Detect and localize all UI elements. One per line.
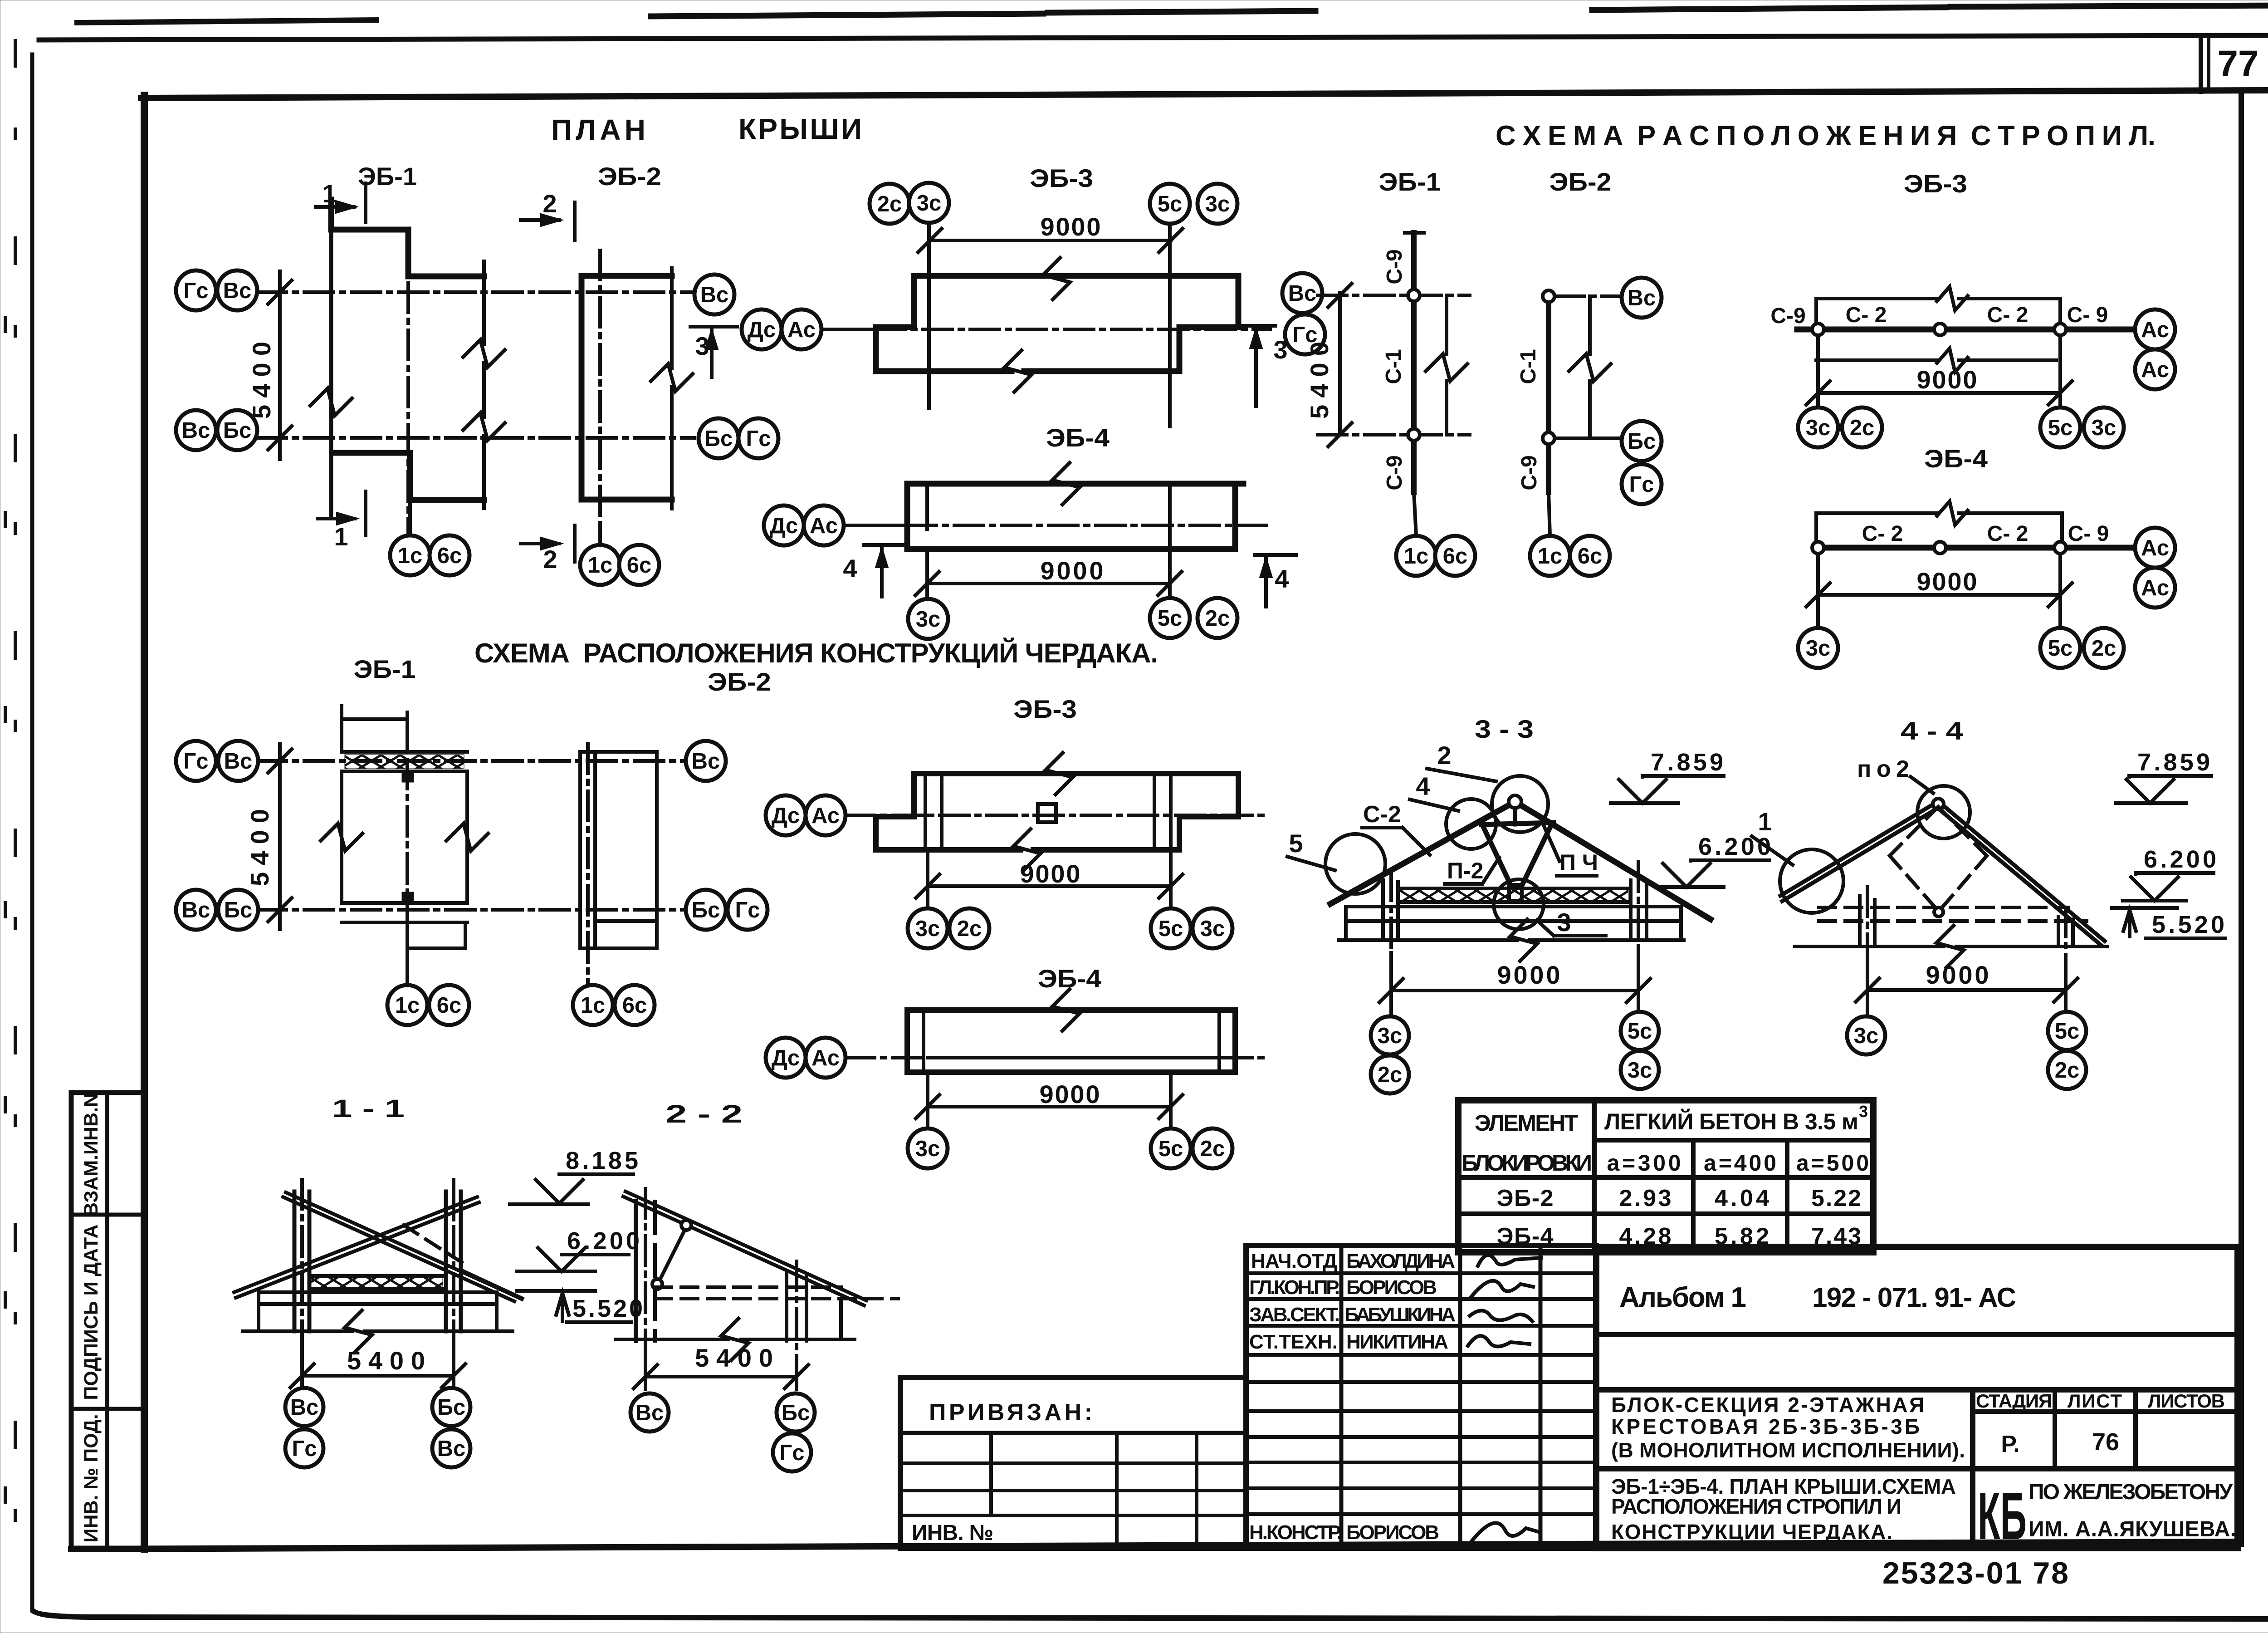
svg-text:9000: 9000 [1917,567,1977,596]
axis circle 6с [1570,536,1610,576]
axis circle Ас [2135,568,2175,608]
svg-text:1: 1 [1758,807,1772,836]
svg-text:3с: 3с [915,917,940,941]
svg-text:Бс: Бс [692,898,720,922]
rafter С-1 member ЭБ-2 [1546,296,1551,492]
svg-text:С-1: С-1 [1382,349,1406,384]
svg-text:4.04: 4.04 [1715,1185,1769,1211]
truss diagonals [1483,826,1512,888]
hatched insulation [309,1274,444,1278]
axis circle Ас [806,1038,846,1078]
axis circle 2с [870,184,909,224]
axis Гс-Вс attic [257,759,694,763]
base line [616,1338,728,1341]
axis circle Вс [285,1388,323,1426]
axis circle Гс [738,418,778,458]
axis circle 2с [1198,598,1237,638]
axis circle Вс [631,1393,669,1432]
svg-text:2с: 2с [1378,1063,1403,1087]
axis circle Бс [777,1393,815,1432]
svg-text:ИНВ. №: ИНВ. № [912,1521,993,1545]
axis circle Дс [742,309,782,349]
svg-text:Вс: Вс [700,283,729,307]
axis circle 3с [908,599,948,639]
walls [340,771,343,903]
svg-text:5с: 5с [2055,1019,2080,1044]
svg-text:НАЧ.ОТД: НАЧ.ОТД [1251,1250,1337,1272]
svg-text:ЭЛЕМЕНТ: ЭЛЕМЕНТ [1475,1110,1578,1136]
svg-text:БЛОК-СЕКЦИЯ 2-ЭТАЖНАЯ: БЛОК-СЕКЦИЯ 2-ЭТАЖНАЯ [1611,1393,1924,1417]
axis circle 2с [949,908,989,948]
axis circle 2с [2048,1051,2086,1089]
wire to circles 1с 6с [408,500,412,535]
left wall [1858,896,1862,946]
sheet outer border bottom [34,1612,2268,1619]
svg-text:а=500: а=500 [1796,1150,1869,1176]
axis circle Ас [2135,528,2175,568]
svg-text:6.200: 6.200 [1698,833,1771,860]
axis circle Бс [686,890,726,930]
wire to circles [598,525,602,544]
axis Бс line [1318,433,1470,436]
center key square [1038,804,1056,822]
svg-text:4: 4 [1416,772,1430,800]
svg-text:Гс: Гс [779,1441,804,1465]
apex node [1933,799,1944,809]
right wall [2057,917,2060,946]
wall section lines [924,774,927,850]
axis circle 3с [908,1128,948,1168]
svg-text:4: 4 [843,554,857,583]
svg-text:Ас: Ас [787,318,816,342]
svg-text:2с: 2с [957,917,982,941]
svg-text:Ас: Ас [2141,576,2169,600]
svg-text:ПОДПИСЬ И ДАТА: ПОДПИСЬ И ДАТА [80,1224,102,1400]
axis circle Вс [686,741,726,781]
svg-text:8.185: 8.185 [566,1147,638,1174]
elevation 5.520 right [2112,906,2177,910]
svg-text:76: 76 [2092,1428,2119,1456]
axis circle Дс [766,795,806,835]
companion line with break [1445,295,1448,354]
top chord line with break [1816,511,1937,515]
svg-text:Вс: Вс [223,279,252,303]
svg-text:9000: 9000 [1926,961,1989,989]
rafter С-9/С-1 member ЭБ-1 [1405,231,1424,235]
svg-text:а=400: а=400 [1704,1150,1776,1176]
svg-text:РАСПОЛОЖЕНИЯ СТРОПИЛ И: РАСПОЛОЖЕНИЯ СТРОПИЛ И [1611,1495,1901,1518]
roof rafter left (double) [1780,801,1938,896]
svg-text:Альбом 1: Альбом 1 [1619,1282,1746,1313]
axis circle 3с [1193,908,1232,948]
svg-text:3с: 3с [2092,416,2116,440]
svg-text:Гс: Гс [1629,472,1654,497]
svg-text:ПО ЖЕЛЕЗОБЕТОНУ: ПО ЖЕЛЕЗОБЕТОНУ [2028,1480,2233,1504]
axis circle 3с [1847,1016,1885,1054]
svg-text:3 - 3: 3 - 3 [1475,715,1534,743]
slab band [259,1290,497,1294]
axis circle Бс [432,1388,470,1426]
right wall [1629,880,1633,940]
svg-text:2с: 2с [1850,416,1875,440]
axis circle Вс [176,410,216,450]
svg-text:ЭБ-3: ЭБ-3 [1904,169,1967,198]
apex post [1513,808,1517,824]
right eave strut [461,1270,522,1299]
axis Вс line [1318,294,1470,297]
axis circle Вс [432,1429,470,1467]
left wall [1381,880,1385,940]
svg-text:С- 9: С- 9 [2068,522,2109,546]
svg-text:5с: 5с [1158,192,1183,216]
svg-text:(В МОНОЛИТНОМ ИСПОЛНЕНИИ).: (В МОНОЛИТНОМ ИСПОЛНЕНИИ). [1611,1438,1965,1462]
svg-text:3с: 3с [916,607,941,632]
svg-text:3с: 3с [1628,1058,1652,1083]
svg-text:192 - 071. 91- АС: 192 - 071. 91- АС [1812,1282,2016,1313]
dimension 5400 attic [278,744,282,929]
svg-text:ЛИСТ: ЛИСТ [2068,1390,2122,1412]
wire to 1с 6с [1549,492,1550,535]
single-slope rafter (double) [626,1192,866,1300]
axis circle 3с [2084,407,2124,447]
svg-text:С- 2: С- 2 [1987,303,2028,327]
right column [785,1270,788,1341]
svg-text:3с: 3с [1806,416,1831,440]
scan artifact: top rough dashes [77,20,376,23]
svg-text:Дс: Дс [772,1046,800,1070]
axis circle Гс [1285,314,1325,354]
axis circle 1с [1396,536,1436,576]
svg-text:3с: 3с [1205,192,1230,216]
svg-text:5.520: 5.520 [2152,911,2224,938]
svg-text:6с: 6с [437,993,462,1018]
svg-text:С- 2: С- 2 [1987,522,2028,546]
svg-text:С Х Е М А Р А С П О Л О Ж Е Н: С Х Е М А Р А С П О Л О Ж Е Н И Я С Т Р … [1496,120,2156,152]
axis circle 1с [387,985,427,1025]
axis circle Ас [804,505,844,545]
axis line Вс-Бс [257,436,694,440]
svg-text:5с: 5с [2048,416,2073,440]
axis stubs to circles [1555,294,1621,298]
svg-text:Дс: Дс [772,804,800,828]
svg-text:ЗАВ.СЕКТ.: ЗАВ.СЕКТ. [1249,1304,1340,1326]
svg-text:2.93: 2.93 [1619,1185,1672,1211]
axis circle 3с [1198,184,1237,224]
svg-text:6с: 6с [622,993,647,1018]
axis circle Бс [218,890,258,930]
svg-text:ЭБ-4: ЭБ-4 [1046,423,1110,452]
bottom stub block [407,922,465,948]
svg-text:а=300: а=300 [1607,1150,1681,1176]
dashed ceiling chords [1819,906,2068,909]
ridge member С-9 С-2 С-2 С-9 [1797,327,2132,333]
wire to 1с 6с [1414,492,1416,535]
svg-text:3с: 3с [1806,636,1831,661]
centerline [406,712,409,971]
drawing frame left [141,95,148,1549]
axis circle 3с [909,183,949,223]
axis circle Дс [766,1038,806,1078]
roof plan ЭБ-2 outline [582,276,672,500]
centerline ЭБ-2 [598,250,602,525]
svg-text:КРЕСТОВАЯ 2Б-3Б-3Б-3Б: КРЕСТОВАЯ 2Б-3Б-3Б-3Б [1611,1415,1920,1438]
detail circle left eave 5 [1325,834,1385,894]
wire to 1с 6с [406,948,409,986]
svg-text:С-9: С-9 [1383,455,1407,490]
svg-text:П-2: П-2 [1447,858,1483,883]
svg-text:ЭБ-1: ЭБ-1 [1379,167,1441,196]
svg-text:Гс: Гс [183,279,208,303]
svg-text:5400: 5400 [247,342,276,419]
axis circle 5с [1621,1012,1659,1050]
svg-text:С-2: С-2 [1363,801,1401,828]
left stamp strip [71,1093,144,1548]
svg-text:С- 2: С- 2 [1862,522,1903,546]
svg-text:Вс: Вс [1288,281,1317,306]
svg-text:Бс: Бс [782,1401,810,1425]
svg-text:Ас: Ас [2141,536,2169,560]
roof rafter right (double) [1938,801,2105,941]
axis circle 5с [2040,628,2080,668]
base line [1339,938,1517,942]
axis circle Вс [218,741,258,781]
axis circle 2с [1842,407,1882,447]
svg-text:ГЛ.КОН.ПР.: ГЛ.КОН.ПР. [1249,1276,1340,1299]
axis Дс-Ас attic ЭБ-3 [846,814,1270,817]
svg-text:Вс: Вс [182,418,210,443]
svg-text:9000: 9000 [1917,365,1977,394]
axis circle 6с [615,985,655,1025]
dashed truss web [1890,807,1938,856]
svg-text:Гс: Гс [183,749,208,774]
svg-text:С- 2: С- 2 [1846,303,1887,327]
svg-text:П Л А Н: П Л А Н [551,113,645,146]
svg-text:2 - 2: 2 - 2 [665,1099,743,1128]
svg-text:Гс: Гс [292,1437,317,1461]
svg-text:6.200: 6.200 [2144,846,2216,873]
svg-text:ЭБ-2: ЭБ-2 [1549,167,1612,196]
svg-text:25323-01 78: 25323-01 78 [1882,1556,2068,1590]
axis circle 1с [580,545,620,585]
centerline ЭБ-1 [406,236,410,542]
svg-text:7.859: 7.859 [1651,749,1723,776]
dimension 5400 (ЭБ-1 roof) [278,271,282,459]
svg-text:Вс: Вс [182,898,210,922]
svg-text:Ас: Ас [810,514,838,538]
roof rafter left С-2 [1330,802,1515,904]
right post [444,1192,448,1331]
lower slab band [342,901,467,905]
axis Вс-Бс attic [257,908,694,912]
axis circle 5с [1150,184,1190,224]
svg-text:ИНВ. № ПОД.: ИНВ. № ПОД. [80,1414,102,1542]
top chord line with break [1816,297,1937,300]
detail circle at apex [1492,776,1548,832]
svg-text:5с: 5с [1158,917,1183,941]
svg-text:4 - 4: 4 - 4 [1901,716,1963,745]
svg-text:Вс: Вс [437,1437,466,1461]
svg-text:Ас: Ас [2141,358,2169,382]
svg-text:3с: 3с [915,1137,940,1161]
svg-text:Ас: Ас [811,1046,840,1070]
svg-text:9000: 9000 [1041,212,1101,241]
svg-text:7.859: 7.859 [2137,749,2210,776]
svg-text:1 - 1: 1 - 1 [332,1094,405,1123]
svg-text:ЭБ-2: ЭБ-2 [598,162,661,191]
apex node [1509,795,1521,808]
axis circle Ас [806,795,846,835]
svg-text:СТ.ТЕХН.: СТ.ТЕХН. [1249,1331,1338,1353]
rafter rising (double) [234,1197,477,1292]
axis circle Гс [1622,464,1662,504]
svg-text:П Ч: П Ч [1559,850,1598,875]
svg-text:3с: 3с [1854,1024,1879,1048]
signature [1478,1255,1541,1266]
center post node [1509,885,1522,901]
svg-text:ЭБ-3: ЭБ-3 [1030,164,1093,192]
svg-text:Бс: Бс [223,418,251,443]
svg-text:5.520: 5.520 [572,1295,643,1322]
axis Дс-Ас (ЭБ-3 roof) [821,328,876,331]
svg-text:5: 5 [1289,829,1303,858]
axis circle 1с [390,535,430,575]
axis circle Вс [217,270,257,310]
small key squares [402,771,414,782]
base line [1795,945,1944,948]
svg-text:3с: 3с [1200,917,1225,941]
drawing frame right [2239,90,2244,1545]
svg-text:2: 2 [543,189,557,218]
upper stub [340,706,343,752]
axis circle 3с [1798,407,1838,447]
svg-text:2: 2 [543,545,557,574]
detail circle 4 [1446,799,1496,849]
svg-text:1с: 1с [1404,544,1429,569]
svg-text:1: 1 [334,522,348,551]
svg-text:КБ: КБ [1978,1479,2027,1554]
svg-text:КОНСТРУКЦИИ ЧЕРДАКА.: КОНСТРУКЦИИ ЧЕРДАКА. [1611,1520,1892,1544]
left wall [634,1201,638,1341]
svg-text:Дс: Дс [748,318,776,342]
axis circle Вс [176,890,216,930]
axis circle 1с [573,985,613,1025]
svg-text:С-9: С-9 [1770,304,1805,328]
svg-text:1с: 1с [581,993,606,1018]
svg-text:Вс: Вс [224,749,253,774]
svg-text:БОРИСОВ: БОРИСОВ [1346,1521,1439,1544]
axis circle 3с [1621,1051,1659,1089]
roof plan ЭБ-3 bar outline [914,276,1238,371]
ceiling slab hatched [1398,887,1629,890]
axis circle Ас [782,309,821,349]
left post [293,1192,297,1331]
axis circle Бс [1622,421,1662,461]
svg-text:6с: 6с [1578,544,1603,569]
apex detail circle [1917,786,1970,839]
svg-text:БАХОЛДИНА: БАХОЛДИНА [1346,1250,1455,1272]
rafter falling (double) [286,1192,517,1297]
attic ЭБ-4 bar outline [907,1010,1235,1072]
svg-text:Бс: Бс [224,898,252,922]
svg-text:6с: 6с [1443,544,1468,569]
svg-text:БАБУШКИНА: БАБУШКИНА [1344,1304,1456,1326]
axis circle Гс [773,1433,811,1471]
axis circle Гс [176,741,216,781]
axis circle 5с [2040,407,2080,447]
svg-text:СХЕМА РАСПОЛОЖЕНИЯ КОНСТРУКЦИ: СХЕМА РАСПОЛОЖЕНИЯ КОНСТРУКЦИЙ ЧЕРДАКА. [474,638,1158,668]
svg-text:2с: 2с [1205,606,1230,631]
svg-text:Ас: Ас [2141,318,2169,342]
svg-text:Вс: Вс [1628,286,1656,310]
svg-text:1с: 1с [1538,544,1563,569]
svg-text:3: 3 [1557,908,1571,937]
roof plan ЭБ-1 outline [331,200,484,276]
upper slab band [342,750,467,754]
svg-text:9000: 9000 [1041,556,1104,585]
svg-text:С-9: С-9 [1383,249,1407,284]
svg-text:9000: 9000 [1497,961,1560,989]
svg-text:ЭБ-1: ЭБ-1 [354,655,416,683]
svg-text:2с: 2с [877,192,902,216]
axis Дс-Ас (ЭБ-4 roof) [846,524,907,527]
axis circle 2с [1371,1055,1409,1094]
svg-text:НИКИТИНА: НИКИТИНА [1346,1331,1448,1353]
axis circle Бс [699,418,738,458]
axis circle Гс [176,270,216,310]
svg-text:К Р Ы Ш И: К Р Ы Ш И [738,113,862,145]
svg-text:3с: 3с [917,191,942,216]
axis circle Дс [764,505,804,545]
svg-text:ЭБ-3: ЭБ-3 [1013,695,1077,723]
svg-text:9000: 9000 [1040,1080,1100,1108]
svg-text:СТАДИЯ: СТАДИЯ [1976,1390,2052,1412]
svg-text:6с: 6с [437,544,462,568]
svg-text:4: 4 [1275,564,1289,593]
svg-text:5с: 5с [1158,1137,1183,1161]
svg-text:Бс: Бс [1628,429,1656,454]
svg-text:2с: 2с [2055,1058,2080,1083]
truss tie П-2 [1481,823,1554,824]
axis circle 5с [1151,1128,1191,1168]
axis circle 5с [1151,908,1191,948]
svg-text:по2: по2 [1857,756,1909,782]
axis circle 3с [1798,628,1838,668]
ridge member С-2 С-2 С-9 [1816,545,2132,551]
svg-text:ЛЕГКИЙ БЕТОН В 3.5 м: ЛЕГКИЙ БЕТОН В 3.5 м [1604,1108,1858,1134]
svg-text:Вс: Вс [692,749,720,774]
strut with nodes [658,1227,686,1283]
axis circle 1с [1530,536,1570,576]
lower chord line with break [1816,358,1937,362]
axis circle 2с [1193,1128,1232,1168]
axis circle 3с [1371,1016,1409,1054]
svg-text:5с: 5с [1628,1019,1652,1044]
svg-text:ЭБ-2: ЭБ-2 [708,667,771,696]
svg-text:ИМ. А.А.ЯКУШЕВА.: ИМ. А.А.ЯКУШЕВА. [2028,1517,2236,1541]
svg-text:5с: 5с [2048,636,2073,661]
wire right edge of ЭБ-1 arm [482,261,486,344]
svg-text:С- 9: С- 9 [2067,303,2108,327]
svg-text:1с: 1с [398,544,423,568]
svg-text:Гс: Гс [735,898,760,922]
svg-text:Н.КОНСТР.: Н.КОНСТР. [1249,1521,1342,1544]
svg-text:2: 2 [1437,741,1451,770]
svg-text:6.200: 6.200 [567,1227,640,1255]
svg-text:С-9: С-9 [1517,455,1541,490]
axis line Гс-Вс [257,290,694,294]
attic ЭБ-3 bar outline [914,774,1238,850]
svg-text:5400: 5400 [245,809,274,886]
